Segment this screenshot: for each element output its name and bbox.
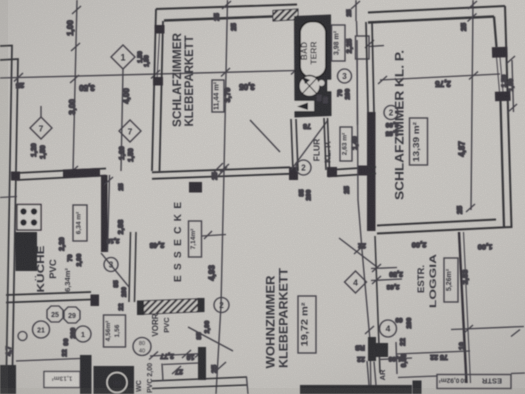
right room right wall with window xyxy=(494,6,512,228)
wc dot xyxy=(319,80,325,86)
left building outer wall xyxy=(0,46,18,394)
right dim vertical xyxy=(466,0,477,212)
center dim line lower xyxy=(202,171,226,394)
corridor double wall xyxy=(129,232,136,302)
loggia dim line xyxy=(451,325,524,337)
corridor wall left of flur xyxy=(291,119,298,171)
radiator block xyxy=(189,182,202,193)
hatched parapet top xyxy=(273,9,298,21)
circle 2 essecke xyxy=(214,298,229,313)
area box 5,26 xyxy=(444,258,458,302)
window dim line right xyxy=(506,56,517,112)
circle 80/40 xyxy=(133,338,151,356)
dim line left column xyxy=(0,0,81,198)
area box 13,39 xyxy=(410,118,428,165)
door swing left room xyxy=(250,120,280,152)
bottom black wall xyxy=(300,385,412,394)
wc walls thin xyxy=(16,359,248,394)
vorraum door swing xyxy=(188,327,233,351)
door swing wohnzimmer xyxy=(339,238,377,267)
flur left wall xyxy=(324,118,330,170)
wash basin xyxy=(299,76,320,97)
kitchen top wall xyxy=(11,168,106,181)
stove xyxy=(17,205,41,231)
circle 3 kitchen xyxy=(104,258,118,272)
kitchen dim line right xyxy=(104,175,113,252)
wc block with circle 90 xyxy=(94,366,135,394)
area box 1,13 xyxy=(44,372,80,388)
circle 2 flur xyxy=(296,160,311,175)
area box 2,63 xyxy=(340,127,352,161)
right-center dim line xyxy=(354,40,402,394)
wc black wall xyxy=(80,355,92,394)
window end blocks left wall xyxy=(155,25,165,34)
circle 4 xyxy=(380,320,397,337)
wall bar wc right xyxy=(198,347,206,380)
octagon 29 xyxy=(64,307,80,323)
octagon 25 xyxy=(47,306,63,322)
kitchen right wall xyxy=(101,175,108,252)
AR walls xyxy=(367,337,412,385)
bath door swing xyxy=(291,120,328,170)
edge shading left xyxy=(0,0,8,394)
white notch right of basin xyxy=(328,80,332,91)
photo grain xyxy=(0,0,1,1)
circle 21 xyxy=(33,321,50,338)
vorraum hatched wall xyxy=(137,298,205,315)
bathroom wall block xyxy=(294,15,332,118)
top mid dim line xyxy=(351,0,360,125)
right room left wall xyxy=(366,22,376,231)
estr black bar xyxy=(413,381,422,394)
estr box xyxy=(437,375,511,389)
diamond 1 xyxy=(111,45,135,69)
loggia wall xyxy=(459,232,471,383)
circle 1 door xyxy=(75,326,91,342)
bottom left black corner xyxy=(0,365,16,394)
kitchen door swing xyxy=(101,253,129,287)
right room top wall xyxy=(368,6,505,23)
diamond 7 a xyxy=(30,106,52,139)
diamond 7 b xyxy=(119,120,141,142)
long dim line L1 xyxy=(0,66,300,82)
left room walls xyxy=(152,5,297,172)
center dim line top xyxy=(220,0,231,172)
flur bottom wall with door xyxy=(327,166,376,178)
dim line L2 xyxy=(378,72,500,85)
area box 6,34 xyxy=(73,205,87,241)
estr top line xyxy=(396,342,525,378)
area box 3,98 xyxy=(332,25,346,61)
edge shading bottom xyxy=(0,388,525,394)
dim line below diamond 1 xyxy=(121,69,123,171)
kitchen wall corner block xyxy=(91,295,100,307)
area box 11,44 xyxy=(212,80,225,112)
circle 2 right room xyxy=(384,106,398,120)
area box 7,14 xyxy=(189,221,202,257)
kitchen bottom wall xyxy=(6,292,91,303)
dim line bottom mid xyxy=(149,350,204,360)
small wall rect xyxy=(356,36,370,59)
area box 19,72 xyxy=(298,296,316,353)
small circle knob xyxy=(18,332,27,341)
diamond 4 xyxy=(345,271,367,293)
left room bottom wall xyxy=(152,163,298,180)
bath door band xyxy=(294,101,314,111)
circle 3 bath xyxy=(338,69,352,83)
counter block xyxy=(16,232,38,271)
right room bottom wall xyxy=(377,220,512,234)
area box 4,56 xyxy=(104,315,126,347)
bathtub xyxy=(300,22,326,78)
